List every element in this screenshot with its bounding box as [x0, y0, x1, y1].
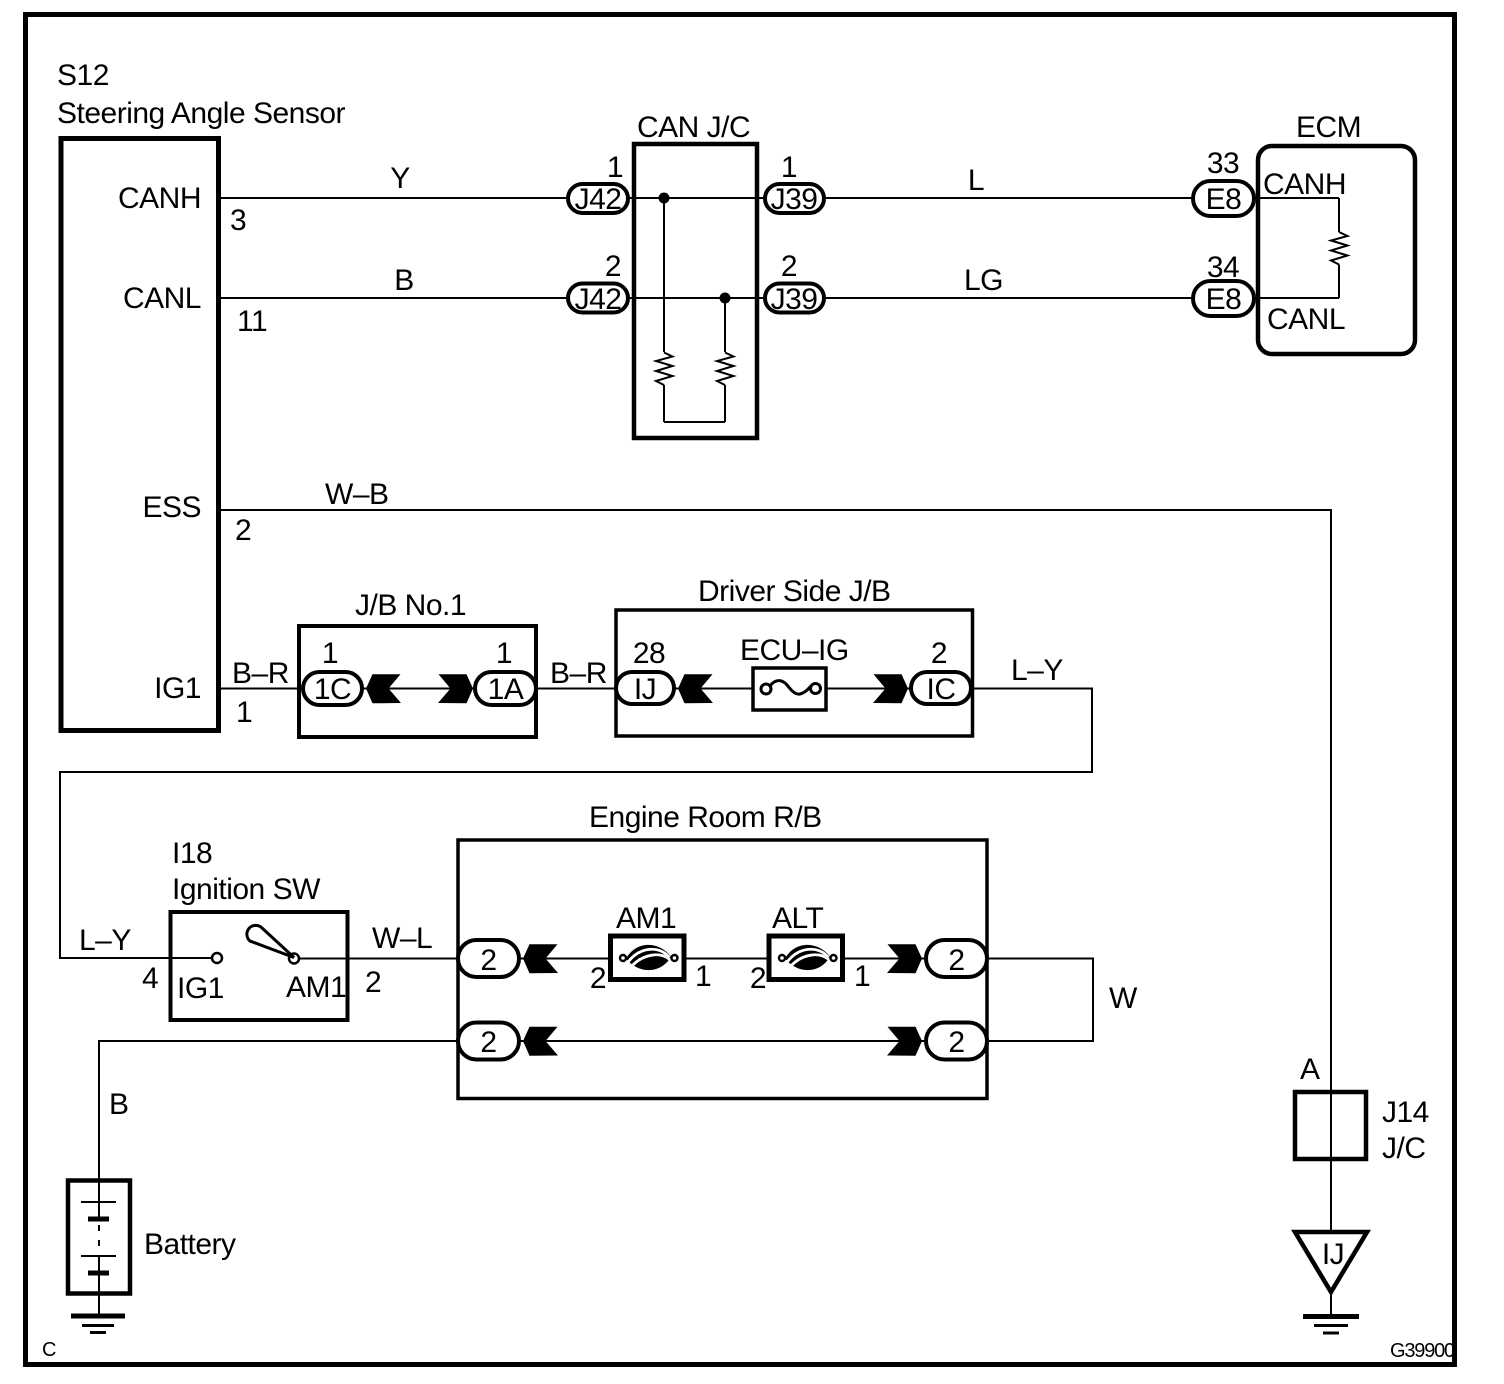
svg-text:2: 2: [605, 250, 621, 283]
svg-text:L–Y: L–Y: [79, 924, 131, 957]
arrow after 1C: [366, 674, 401, 703]
svg-text:Battery: Battery: [144, 1228, 236, 1261]
svg-text:1: 1: [607, 151, 623, 184]
svg-text:28: 28: [633, 637, 665, 670]
svg-text:J14: J14: [1382, 1096, 1429, 1129]
svg-text:J42: J42: [575, 283, 622, 316]
svg-text:J/C: J/C: [1382, 1132, 1426, 1165]
arrow after IJ: [678, 674, 713, 703]
svg-text:CANH: CANH: [118, 182, 201, 215]
ground IJ bar 1: [1303, 1314, 1359, 1319]
svg-text:Ignition SW: Ignition SW: [172, 873, 321, 906]
wire W-L AM1 to Engine Room R/B: [299, 958, 940, 960]
battery bottom lead: [98, 1256, 100, 1316]
svg-text:Engine Room R/B: Engine Room R/B: [589, 801, 822, 834]
node junction dot CANH: [659, 193, 670, 204]
svg-text:1: 1: [695, 960, 711, 993]
svg-text:2: 2: [590, 962, 606, 995]
battery dashed middle: [98, 1225, 100, 1256]
svg-text:IJ: IJ: [634, 673, 656, 706]
wire resistor bottom connector: [664, 421, 725, 423]
svg-text:ECM: ECM: [1296, 111, 1361, 144]
wire CANL net S12 to ECM: [218, 297, 1339, 299]
arrow before 1A: [438, 674, 473, 703]
ground IJ bar 3: [1323, 1332, 1339, 1335]
svg-text:IC: IC: [927, 673, 956, 706]
svg-text:ALT: ALT: [772, 902, 823, 935]
fuse ECU-IG box: [753, 668, 826, 710]
wire W loop right of Engine Room R/B: [985, 959, 1093, 1042]
connector J42 pin 1: [568, 184, 628, 213]
svg-text:W–B: W–B: [325, 478, 389, 511]
connector 1A pin 1: [475, 672, 536, 705]
wire resistor lead right: [724, 298, 726, 422]
battery plate short thick 2: [88, 1271, 109, 1276]
svg-text:B: B: [109, 1088, 129, 1121]
fusible link ALT box: [769, 936, 843, 980]
svg-text:IG1: IG1: [177, 972, 224, 1005]
svg-text:2: 2: [750, 962, 766, 995]
svg-text:2: 2: [480, 944, 496, 977]
arrow before IC: [873, 674, 908, 703]
connector E8 pin 34: [1193, 281, 1254, 316]
svg-text:ECU–IG: ECU–IG: [740, 634, 849, 667]
svg-text:11: 11: [237, 305, 267, 338]
connector J42 pin 2: [568, 284, 628, 313]
svg-text:I18: I18: [172, 837, 212, 870]
svg-text:2: 2: [781, 250, 797, 283]
connector IC pin 2: [911, 672, 971, 704]
svg-text:2: 2: [235, 514, 251, 547]
switch contact AM1 circle: [289, 954, 299, 964]
svg-text:S12: S12: [57, 59, 109, 92]
svg-text:IG1: IG1: [154, 672, 201, 705]
svg-text:CANL: CANL: [123, 282, 201, 315]
svg-text:1: 1: [322, 637, 338, 670]
svg-text:2: 2: [931, 637, 947, 670]
svg-text:IJ: IJ: [1322, 1238, 1344, 1271]
fuse element curve: [770, 681, 811, 695]
svg-text:1: 1: [781, 151, 797, 184]
J14 J/C box: [1295, 1092, 1366, 1159]
svg-text:B–R: B–R: [550, 657, 607, 690]
wire CANH net S12 to ECM: [218, 197, 1339, 199]
svg-text:L: L: [968, 164, 984, 197]
svg-text:W–L: W–L: [372, 922, 432, 955]
svg-text:J42: J42: [575, 183, 622, 216]
Driver Side J/B box: [616, 610, 973, 736]
battery box: [68, 1181, 130, 1294]
J/B No.1 box: [299, 626, 536, 737]
fuse terminal circle left: [761, 684, 771, 694]
resistor ECM internal: [1331, 232, 1348, 265]
svg-text:1C: 1C: [314, 673, 351, 706]
svg-text:B–R: B–R: [232, 657, 289, 690]
svg-text:AM1: AM1: [286, 971, 346, 1004]
connector 2 row1 left: [458, 940, 519, 977]
arrow row2 right: [887, 1027, 922, 1056]
svg-text:34: 34: [1207, 251, 1239, 284]
connector J39 pin 2: [765, 284, 824, 313]
wire L-Y from IC to Ignition SW: [60, 689, 1092, 959]
battery plate short thick 1: [88, 1217, 109, 1222]
ground battery bar 1: [71, 1314, 125, 1319]
svg-text:L–Y: L–Y: [1011, 654, 1063, 687]
battery top lead: [98, 1180, 100, 1219]
ground battery bar 2: [82, 1324, 114, 1327]
ground battery bar 3: [90, 1331, 106, 1334]
S12 Steering Angle Sensor box: [61, 139, 219, 731]
wire ECM internal resistor leads: [1338, 198, 1340, 298]
svg-text:2: 2: [480, 1026, 496, 1059]
svg-text:ESS: ESS: [142, 491, 201, 524]
svg-text:1A: 1A: [488, 673, 524, 706]
svg-text:B: B: [394, 264, 414, 297]
wire B battery to Engine Room R/B: [99, 1041, 940, 1180]
connector IJ pin 28: [616, 672, 674, 704]
connector 2 row2 left: [458, 1023, 519, 1060]
CAN J/C box: [634, 144, 757, 438]
svg-text:E8: E8: [1206, 183, 1242, 216]
resistor terminating right: [717, 353, 734, 386]
svg-text:J39: J39: [771, 183, 818, 216]
fusible link AM1 box: [611, 936, 685, 980]
arrow row1 right: [887, 944, 922, 973]
svg-text:J/B No.1: J/B No.1: [355, 589, 466, 622]
svg-text:2: 2: [948, 1026, 964, 1059]
svg-text:LG: LG: [964, 264, 1003, 297]
connector 2 row2 right: [926, 1023, 987, 1060]
battery plate long 1: [81, 1201, 116, 1203]
fusible link ALT element: [779, 945, 837, 970]
svg-text:1: 1: [854, 960, 870, 993]
svg-text:Y: Y: [390, 162, 410, 195]
svg-text:W: W: [1109, 982, 1138, 1015]
svg-text:2: 2: [365, 966, 381, 999]
svg-text:4: 4: [142, 962, 158, 995]
connector E8 pin 33: [1193, 181, 1254, 216]
arrow row1 left: [523, 944, 558, 973]
node junction dot CANL: [720, 293, 731, 304]
resistor terminating left: [656, 353, 673, 386]
arrow row2 left: [523, 1027, 558, 1056]
switch lever: [247, 925, 294, 957]
svg-text:Steering Angle Sensor: Steering Angle Sensor: [57, 97, 346, 130]
svg-text:Driver Side J/B: Driver Side J/B: [698, 575, 891, 608]
svg-text:CANL: CANL: [1267, 303, 1345, 336]
connector 2 row1 right: [926, 940, 987, 977]
svg-text:CANH: CANH: [1263, 168, 1346, 201]
switch contact IG1 circle: [212, 953, 222, 963]
wire B-R IG1 to Driver Side J/B: [218, 688, 973, 690]
wire resistor lead left: [663, 198, 665, 422]
svg-text:E8: E8: [1206, 283, 1242, 316]
svg-text:CAN J/C: CAN J/C: [637, 111, 750, 144]
battery plate long 2: [81, 1255, 116, 1257]
connector J39 pin 1: [765, 184, 824, 213]
Engine Room R/B box: [458, 840, 987, 1099]
svg-text:C: C: [42, 1339, 56, 1361]
ground IJ bar 2: [1314, 1324, 1348, 1327]
fusible link AM1 element: [620, 945, 678, 970]
svg-text:A: A: [1300, 1053, 1320, 1086]
svg-text:3: 3: [230, 204, 246, 237]
svg-text:2: 2: [948, 944, 964, 977]
svg-text:1: 1: [496, 637, 512, 670]
svg-text:J39: J39: [771, 283, 818, 316]
ground triangle IJ: [1295, 1232, 1367, 1292]
svg-text:AM1: AM1: [616, 902, 676, 935]
svg-text:1: 1: [236, 696, 252, 729]
svg-text:G39900: G39900: [1390, 1340, 1455, 1362]
wire W-B ESS to ground IJ: [218, 510, 1331, 1316]
fuse terminal circle right: [811, 684, 821, 694]
connector 1C pin 1: [303, 672, 362, 705]
Ignition SW box: [171, 912, 348, 1020]
svg-text:33: 33: [1207, 147, 1239, 180]
ECM box: [1258, 146, 1415, 354]
